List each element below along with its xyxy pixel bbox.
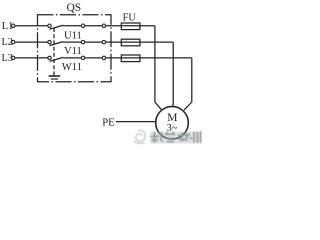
wire drop 1	[155, 26, 162, 110]
ground	[49, 76, 61, 79]
svg-text:V11: V11	[64, 46, 82, 57]
switch QS enclosure (dash-dot box)	[38, 15, 112, 82]
switch pole 1 contact circle	[48, 24, 51, 27]
wire pole2 blade to contact	[63, 41, 81, 43]
terminal circle L1	[12, 24, 15, 27]
linkage line (dashed)	[53, 28, 55, 75]
watermark text backdrop	[150, 132, 201, 144]
switch pole 1 blade	[50, 25, 64, 29]
switch pole 3 mid circle	[81, 56, 84, 59]
wire drop 3	[184, 58, 192, 110]
svg-text:QS: QS	[67, 2, 82, 14]
switch pole 2 blade	[50, 42, 64, 46]
svg-text:U11: U11	[64, 31, 82, 42]
terminal circle L3	[12, 56, 15, 59]
wire pole3 blade to contact	[63, 57, 81, 59]
wire pole3 to fuse FU3	[106, 57, 192, 59]
wire drop 2	[171, 42, 174, 107]
switch pole 1 mid circle	[81, 24, 84, 27]
wire PE	[116, 121, 156, 123]
switch pole 1 out circle	[102, 24, 105, 27]
wire pole1 to fuse FU1	[106, 25, 155, 27]
switch pole 3 out circle	[102, 56, 105, 59]
wire L2 to switch	[15, 41, 47, 43]
wire pole2 to fuse FU2	[106, 41, 173, 43]
watermark logo swirl	[134, 130, 146, 143]
wire pole1	[85, 25, 102, 27]
wire pole3	[85, 57, 102, 59]
switch pole 3 contact circle	[48, 56, 51, 59]
wire L1 to switch	[15, 25, 47, 27]
fuse FU3	[121, 55, 140, 62]
svg-text:PE: PE	[102, 118, 114, 129]
svg-text:W11: W11	[62, 62, 82, 73]
wire pole1 blade to contact	[63, 25, 81, 27]
wire L3 to switch	[15, 57, 47, 59]
watermark text	[151, 131, 201, 143]
fuse FU2	[121, 39, 140, 46]
svg-text:FU: FU	[123, 13, 137, 24]
motor M circle	[156, 107, 189, 140]
switch pole 3 blade	[50, 57, 64, 61]
svg-text:M: M	[167, 112, 177, 124]
wire pole2	[85, 41, 102, 43]
switch pole 2 mid circle	[81, 40, 84, 43]
switch pole 2 contact circle	[48, 40, 51, 43]
terminal circle L2	[12, 40, 15, 43]
switch pole 2 out circle	[102, 40, 105, 43]
fuse FU1	[121, 23, 140, 30]
